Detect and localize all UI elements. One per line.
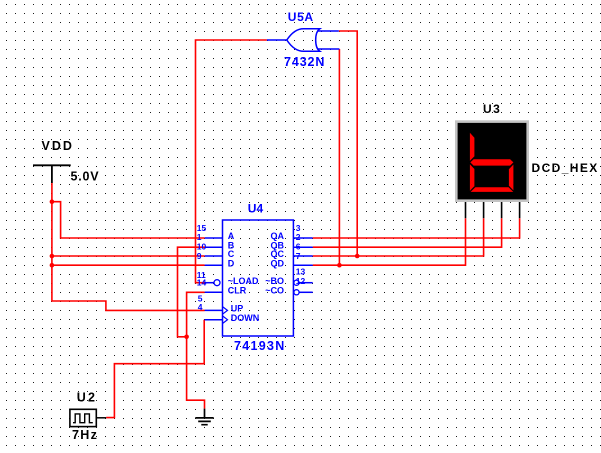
svg-text:D: D xyxy=(228,258,235,268)
pin labels U4 xyxy=(228,231,285,323)
wire VDD to C xyxy=(52,255,205,257)
wire QD to display pin1 xyxy=(313,218,466,265)
clock arrow DOWN xyxy=(223,316,228,324)
segment G xyxy=(470,159,513,165)
pin ~LOAD stub with bubble xyxy=(205,282,214,284)
pin B stub xyxy=(205,246,223,248)
svg-text:U4: U4 xyxy=(248,202,264,216)
wire VDD stem red xyxy=(51,183,53,202)
svg-text:U3: U3 xyxy=(483,102,501,116)
clock arrow UP xyxy=(223,307,228,315)
pin CLR stub xyxy=(205,291,223,293)
wire VDD main vertical xyxy=(52,202,205,311)
op-amp U5A OR gate 7432N xyxy=(267,29,340,52)
wire QB to display pin3 xyxy=(313,218,502,247)
pin QD stub xyxy=(293,264,312,266)
pin A stub xyxy=(205,237,223,239)
segment F xyxy=(470,133,475,161)
svg-text:QD: QD xyxy=(271,258,285,268)
svg-text:7432N: 7432N xyxy=(284,55,325,69)
wire QA to display pin4 xyxy=(313,218,520,238)
svg-text:CLR: CLR xyxy=(228,286,247,296)
wire QC to display pin2 xyxy=(313,218,484,256)
display U3 DCD_HEX xyxy=(455,120,529,202)
pin C stub xyxy=(205,255,223,257)
pin ~CO stub with bubble xyxy=(294,290,299,295)
node junction C row xyxy=(50,254,55,259)
node junction QC gate xyxy=(355,254,360,259)
svg-text:12: 12 xyxy=(296,276,306,286)
svg-text:74193N: 74193N xyxy=(234,339,286,353)
svg-text:10: 10 xyxy=(197,241,207,251)
wire CLR to ground xyxy=(187,292,205,409)
wire gate top input to QC xyxy=(339,31,357,256)
node junction ground net xyxy=(184,335,189,340)
wire gate output to ~LOAD xyxy=(196,40,267,283)
node junction VDD branch xyxy=(50,199,55,204)
svg-text:U2: U2 xyxy=(77,391,97,405)
pin UP stub xyxy=(205,309,223,311)
svg-text:7Hz: 7Hz xyxy=(72,428,98,442)
svg-text:~LOAD: ~LOAD xyxy=(228,276,259,286)
segment E xyxy=(470,164,475,191)
segment C xyxy=(509,165,514,191)
wire VDD branch to A xyxy=(52,202,205,238)
svg-text:4: 4 xyxy=(198,302,203,312)
svg-text:~BO: ~BO xyxy=(265,276,284,286)
wire clock to DOWN xyxy=(106,320,204,418)
display pins xyxy=(466,202,520,218)
svg-text:5.0V: 5.0V xyxy=(71,170,100,184)
node junction QD gate xyxy=(337,263,342,268)
svg-text:7: 7 xyxy=(296,251,301,261)
pin QC stub xyxy=(293,255,312,257)
wire VDD to D xyxy=(52,264,205,266)
pin ~BO stub with bubble xyxy=(294,280,299,285)
svg-text:VDD: VDD xyxy=(42,139,74,153)
pin DOWN stub xyxy=(205,319,223,321)
svg-text:14: 14 xyxy=(197,278,207,288)
pin numbers U4 xyxy=(197,223,306,312)
chip U4 74193N outline xyxy=(223,220,294,336)
svg-text:9: 9 xyxy=(197,251,202,261)
svg-text:DOWN: DOWN xyxy=(231,313,259,323)
clock source U2 xyxy=(70,409,106,426)
pin D stub xyxy=(205,264,223,266)
ground xyxy=(195,409,213,425)
svg-text:~CO: ~CO xyxy=(265,286,284,296)
segment D xyxy=(471,187,514,192)
wire B to ground net xyxy=(178,247,205,337)
pin QB stub xyxy=(293,246,312,248)
node junction D row xyxy=(50,263,55,268)
power VDD symbol xyxy=(33,164,71,183)
svg-text:U5A: U5A xyxy=(288,10,314,24)
pin QA stub xyxy=(293,237,312,239)
wire gate bottom input to QD xyxy=(338,49,340,265)
svg-text:DCD_HEX: DCD_HEX xyxy=(532,161,599,175)
